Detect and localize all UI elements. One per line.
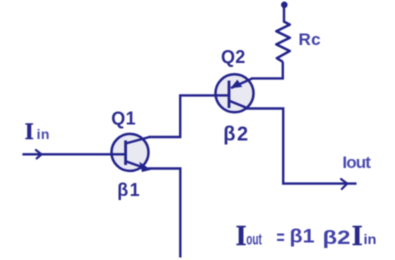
svg-text:β2: β2 [323, 228, 351, 249]
svg-text:Iout: Iout [342, 153, 371, 172]
svg-text:in: in [364, 231, 377, 247]
svg-text:=: = [277, 228, 285, 249]
svg-text:I: I [236, 221, 247, 252]
svg-text:β1: β1 [117, 180, 141, 200]
transistor Q2 [216, 74, 254, 112]
equation Iout = β1 β2 Iin [236, 221, 377, 252]
supply node dot [281, 2, 288, 9]
input current arrow [36, 150, 42, 158]
wire Q2 collector to output [246, 109, 357, 184]
svg-text:I: I [352, 221, 363, 252]
wire Q1 collector to Q2 base [149, 95, 228, 137]
svg-text:out: out [246, 232, 262, 249]
svg-text:I: I [25, 119, 34, 144]
output current arrow [341, 179, 347, 189]
wire Q1 emitter down [148, 169, 180, 258]
wire Q2 emitter to Rc [251, 62, 283, 79]
svg-text:β1: β1 [290, 227, 315, 248]
svg-text:Q1: Q1 [111, 108, 136, 128]
transistor Q1 [112, 134, 152, 172]
svg-text:β2: β2 [223, 124, 249, 146]
wire supply to Rc [283, 5, 285, 23]
svg-text:in: in [37, 126, 50, 142]
svg-text:Rc: Rc [299, 30, 322, 49]
svg-text:Q2: Q2 [221, 47, 246, 67]
wire Iin input lead [22, 153, 111, 155]
resistor Rc [276, 22, 290, 62]
